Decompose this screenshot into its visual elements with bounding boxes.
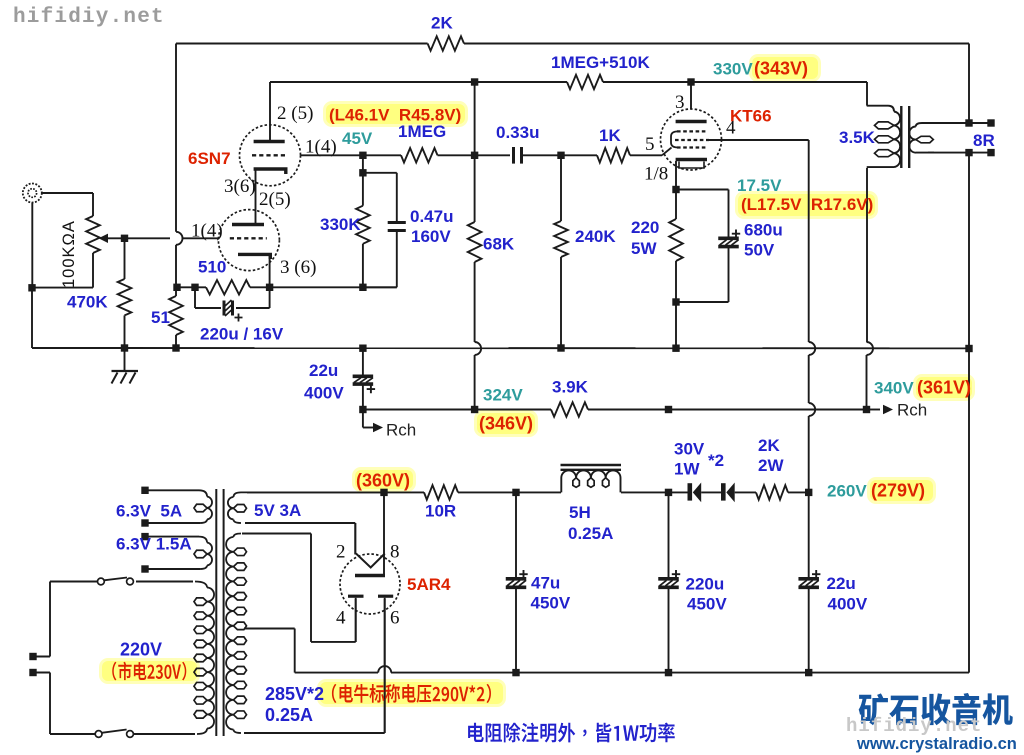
wire screen column (hop to 260V node) [808,416,810,492]
highlight (361V) [913,374,975,401]
label 2(5) lower [259,189,291,210]
tube V2 cathode bar [676,158,707,161]
label 2(5) upper [277,103,313,124]
label pin4 KT66 [726,118,736,139]
wire primary top to left [50,582,98,657]
label (346V) [479,414,533,434]
svg-text:0.25A: 0.25A [568,524,613,543]
wire 330V to OPT [691,82,867,106]
wire primary bottom to left [50,673,95,735]
node junction B+/474 [471,406,478,413]
wire 1MEG to 0.33u [438,154,511,156]
svg-text:hifidiy.net: hifidiy.net [13,6,165,29]
label 0.47u [410,207,453,226]
node junction B+/choke-out [665,406,672,413]
tube V2 grid3 dashed [677,146,706,148]
node junction 51 bottom [172,344,179,351]
wire HV center tap [244,629,295,673]
resistor R3 1MEG [401,148,438,162]
label pin6 5AR4 [390,608,400,629]
winding 6.3V-1.5A [145,537,212,569]
svg-text:220u / 16V: 220u / 16V [200,325,284,344]
svg-text:68K: 68K [483,235,515,254]
label (L46.1V R45.8V) [329,106,461,125]
svg-text:3(6): 3(6) [224,176,256,197]
node junction cap branch left [191,284,198,291]
tube V1a grid dashed [252,154,288,156]
label 2K 2W lower [758,456,784,475]
wire screen column (pin4 to hop1) [808,140,810,342]
wire 0.47u branch bottom [363,231,397,287]
wire feedback vertical right (top rail to OPT secondary) [968,44,970,124]
wire 1K to KT66 grid [630,154,662,156]
resistor R12 2K-2W [756,485,788,499]
resistor R9 220-5W cathode [669,190,683,303]
wire jack sleeve down [31,203,33,289]
wire hop screen over B+ rail [809,403,815,416]
input jack J1 [23,184,42,203]
svg-text:400V: 400V [304,384,344,403]
wire OPT secondary bottom lead [928,152,991,154]
node junction ground/240K [557,344,564,351]
wire 10R to 47u tap [458,491,516,493]
label 6.3V 1.5A [116,535,192,554]
node junction 51 top [173,284,180,291]
label (279V) [871,481,925,501]
winding 5V-3A [228,492,384,523]
wire V1b cathode lead [269,255,271,287]
label 340V [874,379,914,398]
label 220 [631,218,659,237]
wire choke to diodes [621,491,688,493]
highlight (343V) [749,54,821,82]
wire KT66 plate lead pin3 [690,82,692,109]
svg-text:KT66: KT66 [730,107,772,126]
tube V1a plate bar [254,140,285,143]
logo crystalradio cjk [859,693,1013,725]
svg-text:450V: 450V [531,594,571,613]
svg-text:17.5V: 17.5V [737,176,782,195]
svg-text:324V: 324V [483,386,523,405]
winding 6.3V-5A [145,490,212,523]
svg-text:(279V): (279V) [871,481,925,501]
label 8R [973,131,995,150]
wire hop 474 over ground rail [475,342,482,355]
tube V3 plate left [348,595,364,598]
node junction 260V [805,489,812,496]
label 1MEG+510K [551,53,650,72]
resistor R10 3.9K [551,402,588,416]
resistor R7 240K [554,221,568,257]
wire diode link [701,491,721,493]
node junction ground/22u [359,345,366,352]
label (360V) [356,471,410,491]
label 220u/16V [200,325,284,344]
wire 474 column (68K to hop) [474,262,476,342]
tube V1a cathode bar [254,169,286,174]
svg-text:hifidiy.net: hifidiy.net [846,715,982,737]
svg-text:10R: 10R [425,502,456,521]
wire KT66 cathode lead [675,161,677,190]
label 1W [674,460,700,479]
wire feedback vertical left (top to hop) [175,44,177,232]
wire 5AR4 pin4 stub [355,598,357,642]
wire wiper to grid [125,237,219,239]
label 1MEG [398,122,446,141]
label 160V [411,227,451,246]
label 1K [599,126,621,145]
wire 680u branch [676,190,729,303]
node junction psu-gnd/220u [665,669,672,676]
svg-text:22u: 22u [827,574,856,593]
label *2 [708,451,724,470]
diode D1 30V zener [688,483,702,503]
wire hop OPT-drop over ground rail [867,342,874,355]
label (mains 230V) cjk [112,662,186,681]
highlight (279V) [867,477,936,504]
svg-text:5: 5 [645,134,655,155]
svg-text:6.3V 5A: 6.3V 5A [116,502,182,521]
inductor L1 5H choke [561,465,622,492]
svg-text:1MEG: 1MEG [398,122,446,141]
winding 285V HV [226,534,246,734]
svg-text:0.25A: 0.25A [265,705,313,725]
capacitor C3 0.47u/160V [388,223,406,231]
svg-text:220u: 220u [686,575,725,594]
label 68K [483,235,515,254]
resistor R-FB 2K [428,36,464,50]
wire 474 column (rail to grid node) [474,82,476,155]
capacitor C5 22u/400V decoupling [353,349,375,410]
ground symbol [112,348,139,384]
label transformer-rated-voltage cjk [332,684,491,703]
label 17.5V [737,176,782,195]
svg-text:330K: 330K [320,215,361,234]
label Rch left [386,421,416,440]
capacitor C8 22u/400V psu [798,492,820,672]
wire 5AR4 pin8 lead [383,492,385,574]
node terminal 6.3V5A top [141,487,148,494]
svg-text:2K: 2K [758,436,780,455]
highlight (L17.5V R17.6V) [735,191,878,219]
svg-text:240K: 240K [575,227,616,246]
node junction 330K top [359,169,366,176]
node junction KT66 cathode top [672,186,679,193]
svg-text:2K: 2K [431,14,453,33]
label 0.25A choke [568,524,613,543]
label 1(4) upper [305,137,337,158]
svg-text:450V: 450V [687,595,727,614]
resistor R5 68K [468,222,482,262]
wire left ground drop [32,288,125,348]
node terminal speaker top-left [965,119,972,126]
node junction 220-5W bottom [672,298,679,305]
wire hop screen over ground rail [809,342,816,355]
tube V3 5AR4 envelope [340,554,400,614]
svg-text:(361V): (361V) [917,378,971,398]
svg-text:400V: 400V [828,595,868,614]
svg-text:22u: 22u [309,361,338,380]
wire top feedback rail left segment [176,43,428,45]
wire 0.47u branch top [363,173,397,222]
wire 360V to 10R [384,491,424,493]
label 680u [744,221,783,240]
tube V1b cathode bar [238,254,270,259]
label 330K [320,215,361,234]
svg-text:330V: 330V [713,60,753,79]
node junction ground/KT66-cathode [672,345,679,352]
highlight (市电230V) [99,658,200,684]
svg-text:2(5): 2(5) [259,189,291,210]
svg-text:Rch: Rch [897,401,927,420]
label 3.5K [839,128,876,147]
label 220V [120,640,162,660]
svg-text:100KΩA: 100KΩA [60,220,78,288]
label pin8 5AR4 [390,542,400,563]
tube V2 heater cup [679,162,704,169]
label 6SN7 [188,149,231,168]
resistor R8 510 cathode [206,280,250,294]
label 51 [151,308,170,327]
svg-text:2 (5): 2 (5) [277,103,313,124]
wire primary bottom lead [134,733,196,735]
node junction 22u/B+ rail [359,406,366,413]
tube V2 grid lead diagonal [662,148,672,156]
node terminal 6.3V1.5A bottom [141,565,148,572]
wire jack to pot top [42,193,93,216]
label 450V left [531,594,571,613]
wire 5AR4 pin2 lead [354,523,356,555]
node junction psu-gnd/47u [512,669,519,676]
svg-text:1/8: 1/8 [644,164,668,185]
svg-text:1MEG+510K: 1MEG+510K [551,53,650,72]
label 47u [531,574,560,593]
svg-text:1(4): 1(4) [305,137,337,158]
wire 2K2W to 260V node [788,491,809,493]
label 3.9K [552,378,589,397]
svg-text:5W: 5W [631,239,657,258]
label 30V [674,440,705,459]
wire rail to 1MEG+510K [475,81,567,83]
wire KT66 cathode to ground [675,302,677,349]
svg-text:47u: 47u [531,574,560,593]
svg-text:6.3V 1.5A: 6.3V 1.5A [116,535,192,554]
tube V2 grid2 dashed [675,139,709,141]
svg-text:160V: 160V [411,227,451,246]
node junction psu-gnd/22u [805,669,812,676]
tube V1b plate bar [232,223,264,226]
wire B+ rail left [363,409,551,411]
label 400V psu [828,595,868,614]
svg-text:3.5K: 3.5K [839,128,876,147]
wire OPT primary bottom drop [866,168,868,342]
label 6.3V 5A [116,502,182,521]
watermark hifidiy.net bottom [846,715,982,737]
highlight (360V) [352,467,416,492]
label 1/8 KT66 [644,164,668,185]
capacitor C6 47u/450V [506,492,528,672]
node junction grid/330K [359,152,366,159]
svg-text:3: 3 [675,92,685,113]
svg-text:220V: 220V [120,640,162,660]
svg-text:(343V): (343V) [754,59,808,79]
svg-text:(346V): (346V) [479,414,533,434]
svg-text:6: 6 [390,608,400,629]
wire 240K column top [560,155,562,221]
wire 474 column (hop to B+ rail) [474,355,476,410]
highlight (电牛标称电压290V*2) [317,679,506,707]
mains plug prong top [29,653,50,660]
svg-text:45V: 45V [342,129,373,148]
label 0.33u [496,123,539,142]
wire 47u tap to choke [516,491,561,493]
label 5H [569,503,591,522]
wire 474 column (grid node to 68K) [474,155,476,222]
resistor R2 51 cathode [169,287,183,348]
label pin3 KT66 [675,92,685,113]
node terminal 6.3V1.5A top [141,533,148,540]
svg-text:340V: 340V [874,379,914,398]
label 5AR4 [407,575,451,594]
svg-text:0.47u: 0.47u [410,207,453,226]
label 5W [631,239,657,258]
node junction KT66 plate 330V [687,78,694,85]
svg-text:220: 220 [631,218,659,237]
node junction 330K bottom [359,284,366,291]
wire 6SN7 upper grid to 1MEG [301,154,402,156]
svg-text:0.33u: 0.33u [496,123,539,142]
node terminal speaker bottom-right [987,149,994,156]
svg-text:www.crystalradio.cn: www.crystalradio.cn [856,735,1017,753]
tube V2 KT66 envelope [661,109,722,170]
svg-text:5V 3A: 5V 3A [254,501,301,520]
wire grid node down to 330K junction [362,155,364,173]
resistor R11 10R [424,485,458,499]
label www.crystalradio.cn [856,735,1017,753]
label 2K [431,14,453,33]
svg-text:4: 4 [726,118,736,139]
svg-text:50V: 50V [744,241,775,260]
tube V1a 6SN7 upper triode envelope [240,125,301,186]
wire top feedback rail right segment [464,43,969,45]
wire 220u/16V branch [195,287,270,308]
node junction plate-rail/474 [471,78,478,85]
node junction B+/OPT [863,406,870,413]
label 45V [342,129,373,148]
label KT66 [730,107,772,126]
label 50V [744,241,775,260]
wire 6SN7 upper plate lead [269,82,271,141]
svg-text:Rch: Rch [386,421,416,440]
wire primary top lead [136,581,193,583]
node junction 360V [380,489,387,496]
tube V2 plate bar [676,120,707,123]
capacitor C4 680u/50V cathode bypass [718,230,740,247]
svg-text:5AR4: 5AR4 [407,575,451,594]
potentiometer VR1 100K-A [86,216,100,253]
tube V3 plate right [378,595,393,598]
wire 240K column bottom [560,257,562,348]
label 10R [425,502,456,521]
tube V1b 6SN7 lower triode envelope [218,210,279,271]
mains plug prong bottom [29,669,50,676]
svg-text:2W: 2W [758,456,784,475]
watermark hifidiy.net top-left [13,6,165,29]
svg-text:510: 510 [198,258,226,277]
capacitor C2 0.33u coupling [514,147,522,164]
wire B+ rail right [588,409,867,411]
wire diode to 2K2W [735,491,756,493]
label 100K-A pot [60,220,78,288]
label (343V) [754,59,808,79]
svg-text:8R: 8R [973,131,995,150]
label 2K 2W upper [758,436,780,455]
label 400V top [304,384,344,403]
winding 220V primary [194,582,214,735]
node junction 0.33u/240K [557,152,564,159]
wire main ground rail [125,347,970,349]
svg-text:4: 4 [336,608,346,629]
svg-text:8: 8 [390,542,400,563]
node junction wiper/470K [121,235,128,242]
wire Rch elbow left [363,410,383,433]
svg-text:2: 2 [336,542,346,563]
wire pot bottom to ground corner [32,253,93,288]
wire 1MEG+510K to KT66 plate node [603,81,691,83]
svg-text:3.9K: 3.9K [552,378,589,397]
label 260V [827,482,867,501]
tube V3 filament [356,554,385,568]
wire 5AR4 pin6 stub [384,598,386,733]
svg-text:(L17.5V R17.6V): (L17.5V R17.6V) [741,195,873,214]
wire Rch arrow right [867,405,894,415]
node terminal speaker bottom-left [965,149,972,156]
label 3(6) upper [224,176,256,197]
resistor R-FB2 1MEG+510K [567,75,603,89]
label pin5 KT66 [645,134,655,155]
transformer T2 core [901,106,909,168]
svg-text:1W: 1W [674,460,700,479]
wire 510 right [250,286,397,288]
wire PSU ground rail [295,672,969,674]
label 285V*2 [265,684,324,704]
svg-text:1K: 1K [599,126,621,145]
wire 5V-top/rectifier output [247,491,384,493]
label (361V) [917,378,971,398]
wire OPT secondary top lead [928,122,991,124]
svg-text:3 (6): 3 (6) [280,257,316,278]
wire HV bottom lead [244,599,385,733]
label 1(4) lower [191,221,223,242]
label 450V mid [687,595,727,614]
wire cathode rail [176,286,206,288]
transformer T1 core [216,489,223,736]
note resistors-1W cjk [468,723,675,743]
label 220u psu [686,575,725,594]
wire screen column (between hops) [808,355,810,403]
diode D2 30V zener [721,483,735,503]
tube V1b grid dashed [230,237,267,239]
label 3(6) lower [280,257,316,278]
node terminal 6.3V5A bottom [141,519,148,526]
svg-text:30V: 30V [674,440,705,459]
node junction 474/0.33u [471,152,478,159]
svg-text:680u: 680u [744,221,783,240]
capacitor C1 220u/16V bypass [224,300,243,322]
label Rch right [897,401,927,420]
wire 5V bottom lead to pin2 [245,523,355,554]
capacitor C7 220u/450V [658,492,680,672]
